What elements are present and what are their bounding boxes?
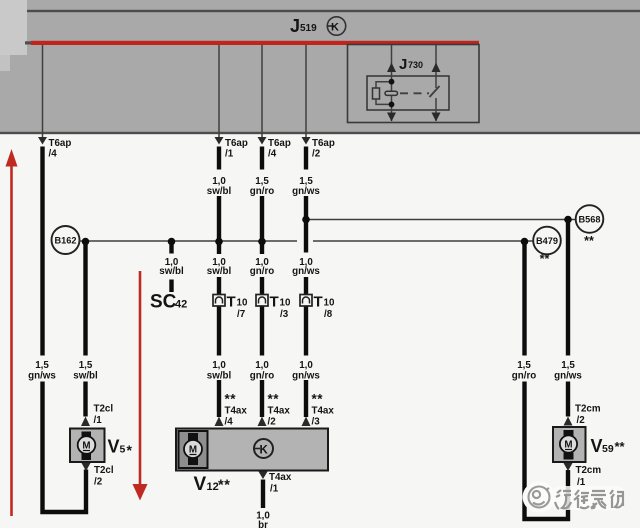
svg-text:1,5: 1,5 — [517, 360, 531, 371]
svg-text:10: 10 — [237, 298, 248, 309]
svg-text:gn/ro: gn/ro — [512, 371, 537, 382]
svg-text:**: ** — [540, 252, 550, 266]
svg-text:T4ax: T4ax — [312, 406, 335, 417]
motor V5 — [70, 429, 105, 463]
svg-text:/3: /3 — [280, 309, 289, 320]
label J730 — [399, 56, 423, 73]
node B162 — [52, 226, 80, 254]
relay J730 outer box — [348, 45, 480, 123]
value label 1,5 gn/ws col1 — [28, 360, 56, 382]
svg-text:T2cm: T2cm — [576, 465, 602, 476]
pin label T4ax/1 — [269, 472, 292, 495]
value label 1,0 gn/ro col3 low — [250, 360, 275, 382]
svg-text:gn/ws: gn/ws — [292, 266, 320, 277]
svg-text:T6ap: T6ap — [268, 138, 291, 149]
svg-text:T: T — [314, 294, 323, 311]
node B479 — [533, 227, 561, 266]
wire gn/ws right column — [566, 220, 570, 417]
svg-text:**: ** — [268, 392, 280, 407]
svg-text:T6ap: T6ap — [312, 138, 335, 149]
svg-text:1,5: 1,5 — [35, 360, 49, 371]
svg-text:1,0: 1,0 — [212, 360, 226, 371]
svg-text:/4: /4 — [225, 417, 234, 428]
svg-text:/2: /2 — [94, 477, 103, 488]
svg-text:**: ** — [218, 478, 231, 494]
svg-text:sw/bl: sw/bl — [207, 266, 232, 277]
pin arrow out of V12 — [259, 472, 268, 480]
pin label T4ax/4 with ** — [225, 392, 248, 428]
wire band drop col1 — [38, 45, 47, 145]
svg-text:**: ** — [312, 392, 324, 407]
wire J730 out left — [387, 110, 396, 122]
motor V59 — [553, 427, 586, 462]
pin label T4ax/2 with ** — [268, 392, 291, 428]
pin label T2cm/2 — [575, 404, 601, 427]
pin arrow col3 into V12 — [258, 417, 267, 427]
svg-text:T4ax: T4ax — [268, 406, 291, 417]
node B568 — [576, 205, 604, 248]
svg-text:T: T — [270, 294, 279, 311]
svg-text:J: J — [399, 56, 407, 73]
svg-text:SC: SC — [150, 292, 177, 313]
wire col1 gn/ws upper — [40, 147, 44, 356]
svg-text:sw/bl: sw/bl — [73, 371, 98, 382]
red flow arrow middle (down) — [133, 271, 148, 501]
wire sw/bl to V5 (x=85.5) — [83, 242, 87, 417]
relay J730 inner box — [367, 76, 449, 110]
pin label T6ap/1 col2 — [225, 138, 248, 160]
pin arrow into V5 — [81, 417, 90, 427]
value label 1,0 gn/ws col4 low — [292, 360, 320, 382]
terminal symbol K (V12) — [254, 439, 274, 458]
splice SC42 stub — [159, 242, 184, 293]
wire col2 sw/bl segments — [217, 147, 221, 418]
svg-text:gn/ro: gn/ro — [250, 371, 275, 382]
svg-text:T6ap: T6ap — [49, 138, 72, 149]
label J519 — [290, 16, 317, 36]
svg-text:5: 5 — [120, 444, 126, 456]
svg-text:/4: /4 — [49, 149, 58, 160]
svg-text:**: ** — [225, 392, 237, 407]
svg-text:gn/ws: gn/ws — [28, 371, 56, 382]
control unit J519 band — [0, 0, 640, 134]
svg-text:/2: /2 — [577, 415, 586, 426]
svg-text:10: 10 — [324, 298, 335, 309]
pin arrow col2 into V12 — [215, 417, 224, 427]
svg-text:br: br — [258, 520, 268, 528]
svg-text:B568: B568 — [579, 214, 601, 224]
connector T10/3 — [256, 294, 291, 321]
svg-text:**: ** — [615, 439, 626, 454]
pin arrow out of V59 — [564, 463, 573, 471]
svg-text:730: 730 — [408, 60, 423, 70]
svg-text:59: 59 — [602, 443, 614, 455]
svg-text:/1: /1 — [94, 415, 103, 426]
svg-text:K: K — [260, 445, 269, 457]
svg-text:T2cm: T2cm — [575, 404, 601, 415]
svg-text:1,0: 1,0 — [255, 360, 269, 371]
watermark blob — [523, 482, 556, 513]
wire V12 ground lead — [261, 480, 265, 509]
value label 1,0 sw/bl col2 mid — [207, 257, 232, 277]
relay J730 mechanical link (dashed) — [400, 92, 429, 94]
svg-text:1,5: 1,5 — [561, 360, 575, 371]
svg-text:1,5: 1,5 — [79, 360, 93, 371]
pin label T6ap/4 col1 — [49, 138, 72, 160]
svg-text:**: ** — [584, 234, 594, 248]
wire J730 out right — [432, 113, 441, 122]
value label 1,0 gn/ws col4 mid — [292, 257, 320, 277]
value label 1,5 gn/ro col3 top — [250, 176, 275, 197]
wire J730 pin right — [432, 45, 441, 76]
red supply bus — [25, 41, 479, 45]
pin label T6ap/4 col3 — [268, 138, 291, 160]
svg-text:T2cl: T2cl — [94, 465, 114, 476]
svg-text:gn/ws: gn/ws — [292, 186, 320, 197]
wire col4 gn/ws segments — [304, 147, 308, 418]
watermark logo — [529, 487, 550, 508]
connector T10/7 — [213, 294, 248, 321]
svg-text:T4ax: T4ax — [269, 472, 292, 483]
wire col1 gn/ws lower + bottom loop — [43, 382, 87, 513]
svg-text:/8: /8 — [324, 309, 333, 320]
svg-text:V: V — [591, 436, 603, 456]
label SC42 — [150, 292, 187, 313]
svg-text:T: T — [227, 294, 236, 311]
label V5 * — [108, 437, 133, 459]
pin label T2cl/2 — [94, 465, 114, 488]
wire col3 gn/ro segments — [260, 147, 264, 418]
svg-text:12: 12 — [207, 481, 219, 493]
pin label T2cl/1 — [94, 404, 114, 427]
value label 1,0 sw/bl col2 top — [207, 176, 232, 197]
svg-text:B162: B162 — [55, 235, 77, 245]
label V59 ** — [591, 436, 626, 456]
svg-text:/4: /4 — [268, 149, 277, 160]
relay J730 switch contact — [430, 76, 440, 121]
svg-text:M: M — [189, 445, 197, 456]
value label 1,0 gn/ro col3 mid — [250, 257, 275, 277]
wire band drop col2 — [215, 45, 224, 145]
svg-text:gn/ws: gn/ws — [554, 371, 582, 382]
svg-text:/1: /1 — [225, 149, 234, 160]
svg-text:/2: /2 — [312, 149, 321, 160]
svg-text:gn/ro: gn/ro — [250, 186, 275, 197]
value label 1,5 sw/bl — [73, 360, 98, 382]
watermark text (pseudo CJK) — [555, 490, 624, 509]
svg-text:sw/bl: sw/bl — [159, 266, 184, 277]
wire gn/ro right column — [525, 242, 569, 520]
svg-text:gn/ws: gn/ws — [292, 371, 320, 382]
wire band drop col4 — [302, 45, 311, 145]
svg-text:T4ax: T4ax — [225, 406, 248, 417]
svg-text:/7: /7 — [237, 309, 246, 320]
svg-text:1,0: 1,0 — [299, 360, 313, 371]
svg-text:sw/bl: sw/bl — [207, 371, 232, 382]
svg-text:T2cl: T2cl — [94, 404, 114, 415]
junction dots on lower bus — [82, 238, 529, 246]
svg-text:V: V — [194, 474, 207, 495]
motor+pump unit V12 box — [176, 429, 328, 471]
terminal symbol K (J519) — [327, 17, 345, 35]
pin arrow out of V5 — [82, 463, 91, 471]
wire band drop col3 — [258, 45, 267, 145]
svg-text:K: K — [331, 22, 339, 34]
svg-text:42: 42 — [175, 299, 187, 311]
value label 1,5 gn/ws col4 top — [292, 176, 320, 197]
value label 1,5 gn/ws right — [554, 360, 582, 382]
label V12 ** — [194, 474, 231, 495]
svg-text:sw/bl: sw/bl — [207, 186, 232, 197]
svg-text:M: M — [564, 440, 572, 451]
wire bus line lower (y=241) — [80, 240, 534, 242]
red flow arrow left (up) — [6, 149, 18, 516]
svg-text:/3: /3 — [312, 417, 321, 428]
value label 1,5 gn/ro right — [512, 360, 537, 382]
pin label T4ax/3 with ** — [312, 392, 335, 428]
svg-text:V: V — [108, 437, 120, 457]
svg-text:B479: B479 — [536, 236, 558, 246]
svg-text:T6ap: T6ap — [225, 138, 248, 149]
pin arrow col4 into V12 — [302, 417, 311, 427]
svg-text:*: * — [127, 442, 133, 458]
svg-text:M: M — [82, 441, 90, 452]
svg-text:10: 10 — [280, 298, 291, 309]
svg-text:/2: /2 — [268, 417, 277, 428]
junction dots on upper bus — [302, 216, 572, 224]
svg-text:/1: /1 — [270, 484, 279, 495]
wire bus line upper (y=219) — [306, 219, 576, 221]
relay J730 coil branch — [373, 76, 398, 110]
pin arrow into V59 — [564, 417, 573, 426]
pin label T6ap/2 col4 — [312, 138, 335, 160]
svg-text:J: J — [290, 16, 300, 36]
svg-text:519: 519 — [300, 23, 317, 34]
wire J730 pin left — [387, 45, 396, 76]
connector T10/8 — [300, 294, 335, 321]
value label 1,0 sw/bl col2 low — [207, 360, 232, 382]
svg-text:gn/ro: gn/ro — [250, 266, 275, 277]
value label 1,0 br — [256, 511, 270, 528]
pin label T2cm/1 — [576, 465, 602, 488]
